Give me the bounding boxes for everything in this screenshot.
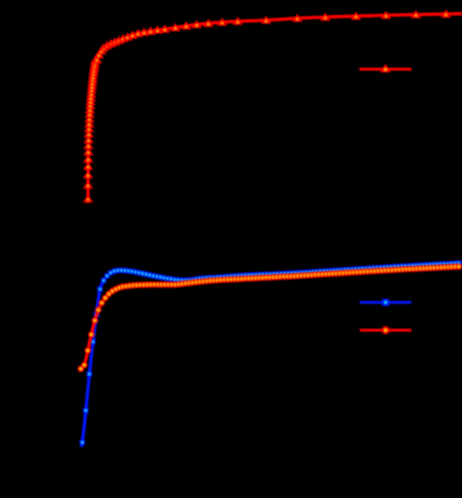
- bottom blue curve: squares: [80, 261, 462, 448]
- bottom legend entries: [360, 299, 412, 334]
- top legend entry: [360, 64, 412, 73]
- bottom red curve: circles (drawn over blue): [78, 263, 462, 372]
- top curve: red line with triangle markers: [83, 9, 462, 203]
